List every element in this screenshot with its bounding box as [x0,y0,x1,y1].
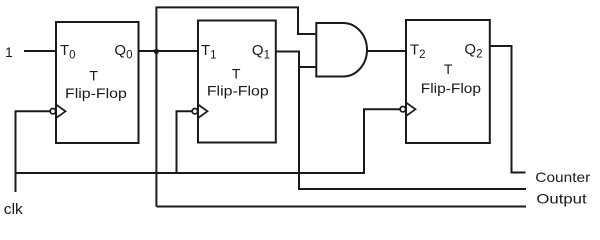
clock bubble FF1 [192,109,197,114]
junction Q0 [154,49,159,54]
value label Flip-Flop (FF0) [65,85,127,101]
wire Q2 to Counter terminal [490,46,526,173]
svg-text:Q2: Q2 [464,41,482,60]
svg-text:Q1: Q1 [252,42,270,61]
node 1 (constant input label) [5,44,13,60]
clock bubble FF0 [50,109,55,114]
wire 1 to T0 input [24,50,56,52]
wire Q0 to T1 [139,50,199,52]
clock bubble FF2 [400,107,405,112]
svg-text:T: T [232,65,241,81]
pin label Q2 [464,41,482,60]
pin label Q0 [114,42,132,61]
pin label Q1 [252,42,270,61]
flip-flop FF0 box [56,22,139,143]
flip-flop FF2 box [406,20,490,143]
clock triangle FF2 [406,103,416,117]
label Counter [535,169,590,185]
wire clk rail to FF2 clock [16,109,401,173]
wire Q0 feedback to AND gate top input [156,7,316,206]
value label Flip-Flop (FF2) [421,80,482,96]
wire Q0 to Output rail (bottom) [156,206,526,208]
label Output [536,191,586,207]
svg-text:1: 1 [5,44,13,60]
svg-text:T1: T1 [201,42,217,61]
pin label T1 [201,42,217,61]
clock triangle FF0 [56,105,66,119]
and-gate [316,23,367,77]
wire AND output to T2 [367,50,406,52]
svg-text:Flip-Flop: Flip-Flop [65,85,127,101]
svg-text:T: T [444,61,453,77]
wire clk branch to FF1 clock [177,111,193,173]
value label T (FF1) [232,65,241,81]
svg-text:Q0: Q0 [114,42,132,61]
wire Q1 down to Output rail [276,52,526,190]
svg-text:Output: Output [536,191,586,207]
svg-text:Counter: Counter [535,169,590,185]
svg-text:T0: T0 [60,42,76,61]
pin label T0 [60,42,76,61]
flip-flop FF1 box [198,21,276,143]
wire Q1 branch to AND gate bottom input [299,66,316,68]
label clk [4,201,24,218]
svg-text:T: T [89,68,98,84]
svg-text:T2: T2 [410,42,426,61]
svg-text:Flip-Flop: Flip-Flop [207,83,269,99]
svg-text:Flip-Flop: Flip-Flop [421,80,482,96]
clock triangle FF1 [198,105,208,119]
value label Flip-Flop (FF1) [207,83,269,99]
wire clk input stub with FF0 clock branch [16,111,51,192]
value label T (FF0) [89,68,98,84]
svg-text:clk: clk [4,201,24,218]
value label T (FF2) [444,61,453,77]
pin label T2 [410,42,426,61]
